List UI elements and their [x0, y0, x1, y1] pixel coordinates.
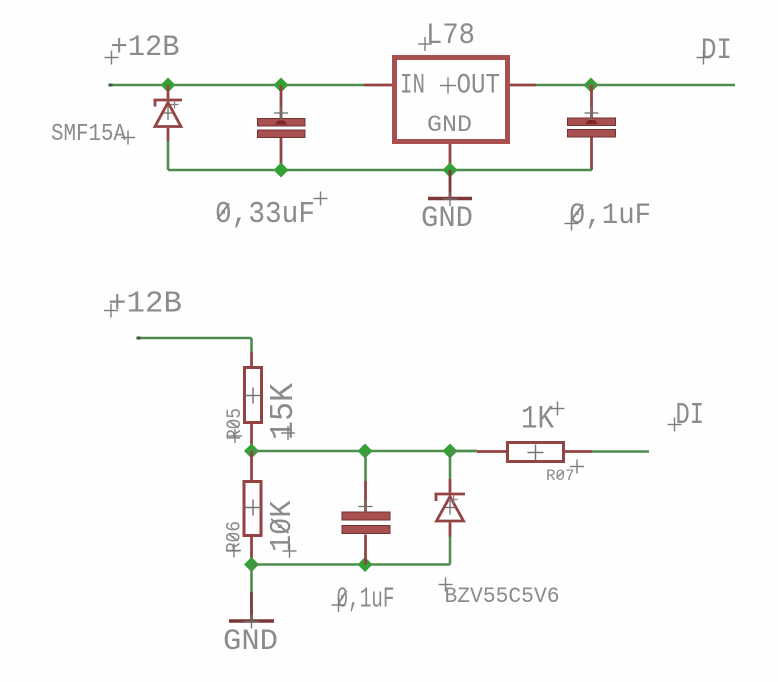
- origin cross of BZV55C5V6 label: [439, 578, 453, 592]
- svg-text:GND: GND: [223, 625, 278, 659]
- junction node at GND (450,170): [443, 163, 458, 178]
- supply pin tip +12B top: [109, 84, 113, 87]
- svg-text:R07: R07: [546, 467, 575, 485]
- zener diode D2 BZV55C5V6 at x=450: [449, 451, 452, 479]
- wire +12B feed (bottom): [138, 338, 252, 352]
- supply pin tip +12B bottom: [137, 337, 141, 340]
- origin cross of 1K label: [551, 402, 565, 416]
- origin cross of 0,33uF label: [314, 192, 328, 206]
- origin cross of DI (top): [697, 51, 711, 65]
- origin cross of D1: [161, 106, 175, 120]
- diode D1 SMF15A (TVS), vertical at x=168: [154, 85, 183, 141]
- svg-text:BZV55C5V6: BZV55C5V6: [445, 584, 560, 609]
- resistor R1 R05 15K vertical: [250, 352, 253, 366]
- origin cross of ground (top): [443, 192, 457, 206]
- IC U1 L78 regulator box: [395, 58, 508, 142]
- capacitor C3 0,1uF at x=365.5: [364, 451, 367, 481]
- junction node at C3 bottom (365,564.5): [358, 557, 373, 572]
- svg-text:15K: 15K: [265, 383, 302, 440]
- resistor R3 R07 1K horizontal: [450, 450, 477, 453]
- origin cross of ground (bottom): [245, 615, 259, 629]
- svg-text:0,1uF: 0,1uF: [569, 199, 651, 233]
- svg-text:+12B: +12B: [111, 31, 180, 65]
- capacitor C1 0,33uF at x=281: [280, 85, 283, 170]
- svg-text:DI: DI: [701, 34, 732, 68]
- svg-text:IN: IN: [400, 71, 425, 102]
- origin cross of R05 label: [228, 429, 242, 443]
- junction node at C1 top (281,85): [274, 78, 289, 93]
- svg-text:0,1uF: 0,1uF: [337, 583, 395, 616]
- svg-text:SMF15A: SMF15A: [51, 121, 127, 148]
- origin cross of C1: [274, 106, 288, 120]
- ground symbol (bottom): [229, 592, 274, 621]
- pin stub IN (red): [364, 84, 392, 87]
- origin cross of R06 label: [227, 544, 241, 558]
- wire GND drop (bottom): [250, 565, 253, 593]
- origin cross of R06 body: [245, 500, 261, 516]
- wire bottom rail of top circuit: [168, 169, 592, 172]
- origin cross of C2: [585, 106, 599, 120]
- svg-text:10K: 10K: [265, 500, 300, 552]
- origin cross of R07 body: [528, 445, 544, 461]
- wire R07 to DI: [592, 450, 649, 453]
- junction node R06 bottom (251.5,564.5): [244, 557, 259, 572]
- wire bottom rail of lower circuit: [252, 563, 451, 566]
- origin cross of 0,1uF label (bottom): [332, 598, 346, 612]
- svg-text:L78: L78: [426, 19, 475, 53]
- origin cross of C3: [359, 500, 373, 514]
- origin cross of 15K label: [281, 426, 295, 440]
- origin cross of D2: [443, 501, 457, 515]
- origin cross of L78 label: [418, 37, 432, 51]
- junction node at diode top (168,85): [161, 78, 176, 93]
- origin cross of R07 label: [570, 460, 584, 474]
- wire diode bottom to bottom rail: [167, 141, 170, 170]
- junction node at C3 top (365,451): [358, 444, 373, 459]
- svg-text:1K: 1K: [521, 401, 555, 438]
- ground symbol (top): [428, 170, 472, 199]
- pin origin cross OUT: [440, 78, 456, 94]
- origin cross of +12B (top): [105, 51, 119, 65]
- origin cross of DI (bottom): [668, 418, 682, 432]
- diode D1 origin mark: [171, 101, 179, 109]
- wire zener bottom to rail: [449, 537, 452, 565]
- svg-text:+12B: +12B: [108, 287, 182, 322]
- zener D2 origin mark: [450, 496, 458, 504]
- svg-text:DI: DI: [676, 398, 705, 433]
- junction node at C1 bottom (281,170): [274, 163, 289, 178]
- origin cross of 10K label: [283, 544, 297, 558]
- wire OUT net to DI: [536, 84, 735, 87]
- pin stub OUT (red): [510, 84, 536, 87]
- capacitor C2 0,1uF at x=591.5: [590, 85, 593, 170]
- origin cross of R05 body: [245, 388, 261, 404]
- svg-text:GND: GND: [427, 112, 472, 138]
- wire top rail +12B from supply to IN pin: [110, 84, 364, 87]
- origin cross of +12B (bottom): [104, 304, 118, 318]
- resistor R2 R06 10K vertical: [250, 451, 253, 480]
- svg-text:OUT: OUT: [457, 71, 501, 102]
- junction node at zener top (450,451): [443, 444, 458, 459]
- svg-text:0,33uF: 0,33uF: [215, 197, 315, 232]
- origin cross of 0,1uF label (top): [565, 217, 579, 231]
- junction node R05/R06 (251.5,451): [244, 444, 259, 459]
- svg-text:GND: GND: [421, 202, 473, 236]
- svg-text:R06: R06: [224, 521, 247, 553]
- pin stub GND (red): [449, 144, 452, 170]
- junction node at OUT net (591,85): [584, 78, 599, 93]
- origin cross of SMF15A label: [121, 131, 135, 145]
- wire mid rail: [252, 450, 478, 453]
